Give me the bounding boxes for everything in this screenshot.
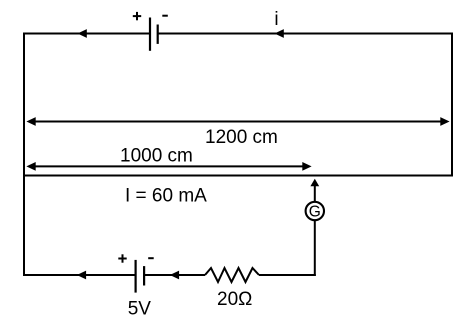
current arrow i — [275, 29, 284, 38]
wire top right segment — [158, 33, 453, 35]
svg-text:I = 60 mA: I = 60 mA — [125, 185, 207, 206]
svg-text:G: G — [309, 204, 321, 221]
wire bottom segment 3 — [259, 274, 316, 276]
dimension arrow 1000 cm — [26, 162, 311, 171]
svg-text:i: i — [274, 9, 278, 30]
wire potentiometer — [23, 175, 453, 177]
dimension arrow 1200 cm — [26, 117, 449, 126]
wire right vertical — [451, 33, 453, 177]
battery B2 minus sign — [148, 257, 154, 259]
current arrow bottom-left — [77, 271, 86, 280]
battery B1 plus plate — [149, 18, 151, 51]
wire left vertical — [23, 33, 25, 277]
battery B1 plus sign — [133, 12, 141, 20]
wire top left segment — [24, 33, 150, 35]
battery B2 plus sign — [118, 254, 126, 262]
current arrow top-left — [78, 29, 87, 38]
battery B1 minus sign — [162, 15, 168, 17]
wire bottom segment 1 — [23, 274, 136, 276]
svg-text:1200 cm: 1200 cm — [205, 127, 278, 148]
svg-text:5V: 5V — [128, 298, 152, 319]
galvanometer G circle — [306, 202, 324, 220]
battery B1 minus plate — [157, 25, 159, 44]
wire bottom segment 2 — [144, 274, 205, 276]
svg-text:20Ω: 20Ω — [217, 289, 252, 310]
wire below galvanometer — [314, 221, 316, 276]
resistor R1 20ohm — [205, 268, 259, 282]
battery B2 plus plate — [135, 260, 137, 293]
battery B2 minus plate — [143, 266, 145, 285]
jockey arrow up — [310, 179, 319, 187]
current arrow bottom-mid — [170, 271, 179, 280]
svg-text:1000 cm: 1000 cm — [120, 145, 193, 166]
wire jockey stem — [314, 186, 316, 202]
